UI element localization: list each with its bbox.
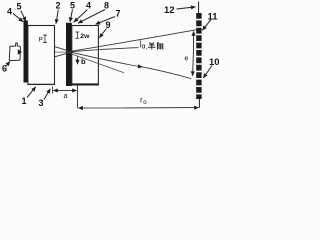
7 leader arrow <box>96 17 116 25</box>
kanji han (half) <box>148 43 156 50</box>
screen axis line top <box>198 2 200 14</box>
dimension a line <box>51 90 54 92</box>
svg-text:5: 5 <box>70 1 75 11</box>
label 6 leader arrow <box>6 61 10 66</box>
axis segment in gap <box>55 51 71 53</box>
dimension r0 line <box>78 107 120 109</box>
half-angle arc <box>140 40 141 47</box>
strip 2 (second slit) <box>66 23 72 86</box>
svg-text:e: e <box>185 56 189 63</box>
2w dimension I-bracket <box>75 32 79 38</box>
svg-text:5: 5 <box>17 2 22 12</box>
laser source symbol <box>9 43 20 61</box>
converging ray lower <box>55 52 71 56</box>
svg-text:1: 1 <box>22 96 27 106</box>
converging ray upper (box1 to strip2) <box>55 47 71 52</box>
11 leader arrow <box>202 20 211 31</box>
svg-text:3: 3 <box>39 98 44 108</box>
svg-text:α,: α, <box>142 44 148 51</box>
screen dashed strip <box>196 13 201 99</box>
12 leader arrow <box>177 7 196 9</box>
8 leader arrow <box>78 10 105 24</box>
svg-text:4: 4 <box>86 1 91 11</box>
10 leader arrow <box>203 66 212 79</box>
svg-text:6: 6 <box>2 64 7 74</box>
svg-text:a: a <box>64 93 68 100</box>
2 leader arrow <box>56 10 58 24</box>
P dimension I-bracket <box>43 35 47 43</box>
e dimension double arrow <box>192 31 194 53</box>
svg-text:12: 12 <box>164 5 175 16</box>
source output arrow wedge <box>18 49 22 55</box>
b down arrow <box>77 57 79 65</box>
diverging ray top (to screen) <box>71 30 196 52</box>
collimator lens box 1 <box>28 26 55 85</box>
svg-text:11: 11 <box>208 12 219 23</box>
box 1 heavy bottom edge <box>28 83 54 85</box>
screen axis line bottom <box>198 99 200 108</box>
svg-text:4: 4 <box>7 7 12 17</box>
svg-text:P: P <box>39 37 43 44</box>
5 mid leader arrow <box>70 10 73 23</box>
4 mid leader arrow <box>74 10 88 23</box>
slit plate strip 1 <box>24 21 28 83</box>
diverging ray bottom with direction arrowhead <box>71 52 143 67</box>
3 leader arrow <box>44 89 50 100</box>
9 leader arrow <box>99 29 106 38</box>
diverging ray axis (horizontal) <box>71 48 139 52</box>
a left tick <box>51 87 53 94</box>
cylindrical lens box 2 <box>72 26 99 86</box>
svg-text:8: 8 <box>104 1 109 11</box>
steep marginal ray stub <box>71 54 124 73</box>
vertical reference line below box2 <box>76 86 78 109</box>
svg-text:2: 2 <box>56 1 61 11</box>
kanji kaku (angle) <box>157 42 163 50</box>
svg-text:7: 7 <box>116 9 121 19</box>
svg-text:10: 10 <box>209 57 220 68</box>
svg-text:2w: 2w <box>80 33 90 40</box>
5 leader arrow <box>21 11 26 22</box>
1 leader arrow <box>27 87 36 98</box>
box 2 heavy bottom edge <box>72 83 98 85</box>
4 leader arrow <box>13 14 23 22</box>
